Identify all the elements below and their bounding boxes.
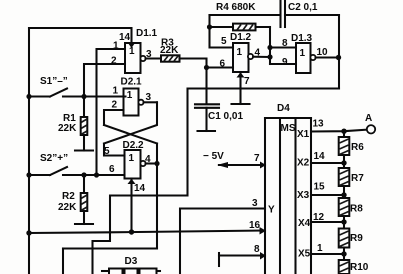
wire X2 pin 14 xyxy=(311,151,344,163)
wire X3 pin 15 xyxy=(311,182,344,196)
svg-text:X3: X3 xyxy=(297,190,310,201)
resistor R9 xyxy=(339,216,364,248)
svg-text:5: 5 xyxy=(221,36,227,47)
wire top rail xyxy=(29,28,132,43)
svg-text:14: 14 xyxy=(119,32,131,43)
svg-text:X5: X5 xyxy=(298,249,311,260)
wire X5 pin 1 xyxy=(311,243,344,254)
node S2 line / pin1 vertical junction xyxy=(94,172,99,177)
svg-text:Y: Y xyxy=(268,205,275,216)
wire supply rail to D4 pin16 xyxy=(29,231,265,234)
svg-text:1: 1 xyxy=(300,48,306,59)
node C1 top junction xyxy=(204,65,209,70)
svg-text:16: 16 xyxy=(249,220,261,231)
gate D1.3 xyxy=(282,33,339,73)
svg-text:1: 1 xyxy=(129,46,135,57)
node D2.2 out junction xyxy=(154,161,159,166)
svg-text:R7: R7 xyxy=(351,173,364,184)
resistor R3 22K xyxy=(160,38,180,62)
terminal A xyxy=(365,113,375,134)
pin 14 D2.2 xyxy=(128,179,146,233)
svg-text:2: 2 xyxy=(111,56,117,67)
node X1 chain xyxy=(341,129,346,134)
gate D2.1 xyxy=(112,77,158,116)
svg-text:R4 680K: R4 680K xyxy=(216,2,256,13)
svg-text:X1: X1 xyxy=(297,129,310,140)
svg-text:− 5V: − 5V xyxy=(203,151,224,162)
node D1.3 out junction xyxy=(336,55,341,60)
svg-text:6: 6 xyxy=(220,59,226,70)
svg-text:22K: 22K xyxy=(58,202,77,213)
wire D1.3 pin9 xyxy=(270,63,296,65)
pin 16 D4 xyxy=(249,220,266,235)
node rail bottom junction xyxy=(26,230,31,235)
switch S2 "+" xyxy=(26,153,124,178)
resistor R2 22K xyxy=(58,175,93,224)
svg-text:14: 14 xyxy=(134,183,146,194)
block D4 MS xyxy=(265,103,311,274)
svg-text:15: 15 xyxy=(314,182,326,193)
svg-text:R2: R2 xyxy=(62,191,75,202)
svg-text:D2.1: D2.1 xyxy=(121,77,143,88)
wire R3 to C1/D1.2 pin6 node xyxy=(180,59,207,104)
resistor R1 22K xyxy=(58,97,93,151)
wire C2 right down to D1.3 out xyxy=(338,15,340,89)
gate D1.2 xyxy=(220,32,271,72)
svg-text:14: 14 xyxy=(314,151,326,162)
svg-text:1: 1 xyxy=(113,41,119,52)
svg-text:D1.1: D1.1 xyxy=(136,28,158,39)
capacitor C2 0,1 xyxy=(281,1,340,27)
resistor R8 xyxy=(339,186,364,216)
node D1.2 out junction xyxy=(267,54,272,59)
wire S2-to-D1.1-pin1 vertical xyxy=(97,49,126,175)
switch S1 "-" xyxy=(26,76,125,99)
svg-text:22K: 22K xyxy=(58,123,77,134)
svg-text:D4: D4 xyxy=(277,103,290,114)
wire osc left vertical xyxy=(210,15,234,48)
wire top osc rail xyxy=(210,14,280,16)
capacitor C1 0,01 xyxy=(195,104,243,131)
svg-text:8: 8 xyxy=(282,38,288,49)
resistor R6 xyxy=(339,131,365,155)
svg-text:S2”+”: S2”+” xyxy=(40,153,68,164)
svg-text:R9: R9 xyxy=(350,233,363,244)
svg-text:R6: R6 xyxy=(351,142,364,153)
svg-text:A: A xyxy=(365,113,372,124)
wire left rail xyxy=(28,28,30,274)
wire D1.2 pin6 xyxy=(207,66,234,68)
wire D1.1 pin2 feed xyxy=(84,64,125,97)
svg-text:5: 5 xyxy=(104,146,110,157)
svg-text:13: 13 xyxy=(313,119,325,130)
svg-text:10: 10 xyxy=(317,47,329,58)
svg-text:1: 1 xyxy=(317,243,323,254)
svg-text:D1.2: D1.2 xyxy=(230,32,252,43)
svg-text:1: 1 xyxy=(237,47,243,58)
resistor R7 xyxy=(339,155,365,186)
wire D2.2 out to cross xyxy=(156,144,158,164)
pin 7 D4 / -5V arrow xyxy=(203,151,266,169)
resistor R10 xyxy=(339,248,369,274)
wire X1 pin 13 xyxy=(311,119,366,132)
svg-text:C1 0,01: C1 0,01 xyxy=(208,111,243,122)
wire X4 pin 12 xyxy=(311,212,344,223)
svg-text:X2: X2 xyxy=(297,158,310,169)
gate D1.1 xyxy=(111,28,161,73)
node R4 left junction xyxy=(207,24,212,29)
svg-text:3: 3 xyxy=(252,198,258,209)
svg-text:X4: X4 xyxy=(298,218,311,229)
wire D2.2 pin5 feed xyxy=(104,144,125,156)
svg-text:9: 9 xyxy=(282,57,288,68)
node pin14 / supply wire junction xyxy=(129,229,134,234)
svg-text:D3: D3 xyxy=(125,256,138,267)
svg-text:C2 0,1: C2 0,1 xyxy=(288,2,318,13)
node X4 chain xyxy=(341,219,346,224)
wire feedback long run xyxy=(93,89,340,274)
wire D2.2 out down xyxy=(156,164,158,249)
wire latch cross diagonal a xyxy=(104,125,157,144)
node S1 line / R1 junction xyxy=(81,94,86,99)
svg-text:7: 7 xyxy=(244,76,250,87)
svg-text:R8: R8 xyxy=(350,204,363,215)
wire W4 bottom run xyxy=(63,247,157,249)
svg-text:1: 1 xyxy=(127,90,133,101)
svg-text:MS: MS xyxy=(281,123,296,134)
node S2 line / R2 junction xyxy=(81,172,86,177)
wire D1.3 pin8 xyxy=(270,46,296,48)
svg-text:1: 1 xyxy=(129,153,135,164)
pin 8 D4 xyxy=(219,244,266,266)
svg-text:2: 2 xyxy=(112,100,118,111)
gate D2.2 xyxy=(104,140,157,179)
pin 3 D4 xyxy=(180,198,265,274)
wire W4 left down xyxy=(62,249,64,274)
pin 7 D1.2 xyxy=(232,72,251,104)
wire D2.1 pin2 feedback xyxy=(104,110,124,125)
svg-text:7: 7 xyxy=(254,153,260,164)
svg-text:R10: R10 xyxy=(350,262,369,273)
wire R4 right down to D1.2 out xyxy=(269,27,271,64)
node X2 chain xyxy=(341,160,346,165)
node D1.3 pin8 junction xyxy=(267,45,272,50)
svg-text:8: 8 xyxy=(254,244,260,255)
oscillator R4 680K xyxy=(210,2,271,30)
svg-text:6: 6 xyxy=(109,164,115,175)
node X5 chain xyxy=(341,251,346,256)
svg-text:1: 1 xyxy=(113,86,119,97)
svg-text:S1”–”: S1”–” xyxy=(40,76,68,87)
node X3 chain xyxy=(341,192,346,197)
block D3 xyxy=(102,256,160,274)
wire latch cross diagonal b xyxy=(104,102,157,143)
